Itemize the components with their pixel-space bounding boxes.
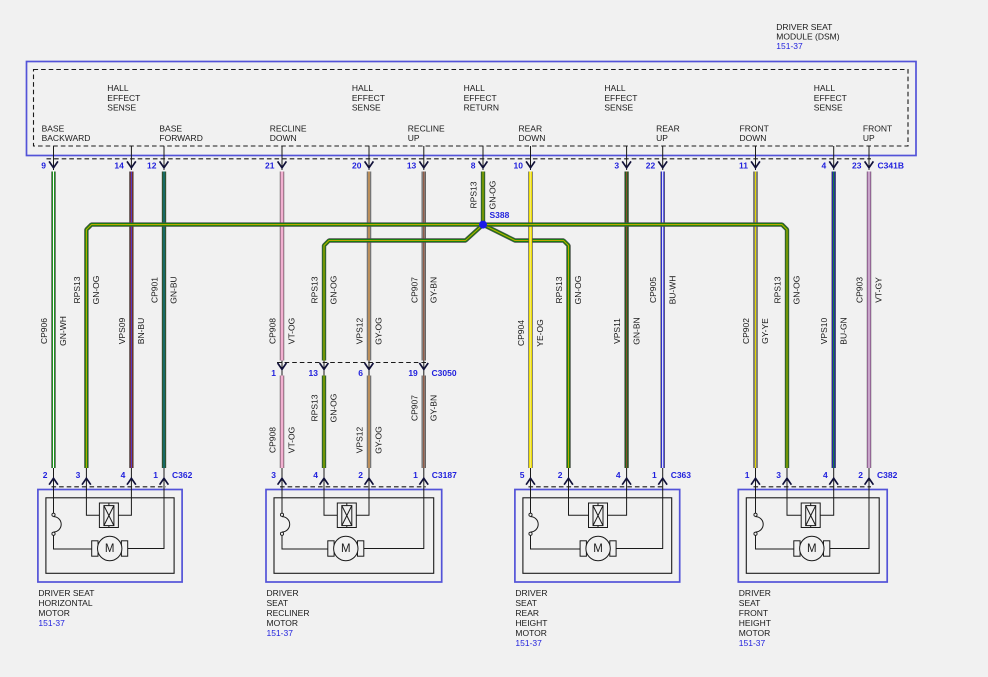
wire CP907 GY-BN C3050 to recliner motor bbox=[422, 376, 426, 469]
svg-text:151-37: 151-37 bbox=[515, 638, 542, 648]
svg-text:C3050: C3050 bbox=[432, 368, 457, 378]
svg-text:CP907: CP907 bbox=[409, 277, 419, 303]
svg-text:GY-OG: GY-OG bbox=[374, 426, 384, 454]
DSM pin 12 stub and arrow bbox=[163, 146, 165, 170]
driver seat rear height motor position sensor contact arc bbox=[529, 513, 532, 516]
driver seat horizontal motor hall sensor symbol bbox=[99, 503, 118, 528]
driver seat rear height motor pin 1 arrow bbox=[662, 468, 664, 490]
svg-text:EFFECT: EFFECT bbox=[107, 93, 140, 103]
svg-text:M: M bbox=[807, 543, 817, 555]
C3050 pin 13 arrow bbox=[323, 361, 325, 376]
driver seat horizontal motor inner box bbox=[46, 498, 174, 574]
driver seat rear height motor pin 5 arrow bbox=[530, 468, 532, 490]
svg-text:1: 1 bbox=[153, 470, 158, 480]
DSM pin 8 stub and arrow bbox=[482, 146, 484, 170]
svg-text:151-37: 151-37 bbox=[739, 638, 766, 648]
svg-text:2: 2 bbox=[558, 470, 563, 480]
svg-text:EFFECT: EFFECT bbox=[604, 93, 637, 103]
svg-text:MODULE (DSM): MODULE (DSM) bbox=[776, 31, 839, 41]
svg-text:M: M bbox=[593, 543, 603, 555]
driver seat recliner motor hall sensor symbol bbox=[337, 503, 356, 528]
svg-text:SENSE: SENSE bbox=[814, 102, 843, 112]
svg-text:SEAT: SEAT bbox=[515, 598, 537, 608]
wire VPS09 BN-BU pin 14 to horizontal motor bbox=[129, 172, 133, 469]
wire RPS13 GN-OG main bus bbox=[86, 225, 787, 468]
svg-text:UP: UP bbox=[408, 133, 420, 143]
wire CP906 GN-WH pin 9 to horizontal motor bbox=[51, 172, 55, 469]
svg-text:GN-OG: GN-OG bbox=[792, 276, 802, 305]
wire RPS13 GN-OG splice left branch to C3050 bbox=[324, 225, 483, 361]
svg-text:HALL: HALL bbox=[352, 83, 374, 93]
svg-text:GY-YE: GY-YE bbox=[760, 318, 770, 344]
svg-text:MOTOR: MOTOR bbox=[38, 608, 69, 618]
svg-text:BASE: BASE bbox=[159, 123, 182, 133]
svg-text:20: 20 bbox=[352, 160, 362, 170]
driver seat front height motor inner box bbox=[746, 498, 879, 574]
svg-text:GY-OG: GY-OG bbox=[374, 317, 384, 345]
svg-text:UP: UP bbox=[656, 133, 668, 143]
DSM module inner dashed box bbox=[34, 70, 909, 147]
svg-text:GN-OG: GN-OG bbox=[91, 276, 101, 305]
wire CP901 GN-BU pin 12 to horizontal motor bbox=[162, 172, 166, 469]
svg-text:HALL: HALL bbox=[814, 83, 836, 93]
driver seat recliner motor internal wiring bbox=[282, 490, 424, 550]
svg-text:RECLINE: RECLINE bbox=[270, 123, 307, 133]
driver seat front height motor internal wiring bbox=[756, 490, 870, 550]
svg-text:19: 19 bbox=[408, 368, 418, 378]
svg-text:EFFECT: EFFECT bbox=[814, 93, 847, 103]
svg-text:VPS12: VPS12 bbox=[355, 426, 365, 453]
svg-text:CP903: CP903 bbox=[855, 277, 865, 303]
driver seat recliner motor position sensor contact arc bbox=[280, 513, 283, 516]
svg-text:2: 2 bbox=[358, 470, 363, 480]
driver seat horizontal motor position sensor contact arc bbox=[52, 513, 55, 516]
svg-text:RPS13: RPS13 bbox=[72, 276, 82, 303]
wire VPS10 BU-GN pin 4 to front height motor bbox=[832, 172, 836, 469]
svg-text:CP907: CP907 bbox=[409, 395, 419, 421]
svg-text:EFFECT: EFFECT bbox=[464, 93, 497, 103]
svg-text:VT-GY: VT-GY bbox=[874, 277, 884, 303]
wire RPS13 GN-OG C3050 to recliner motor bbox=[322, 376, 326, 469]
DSM pin 23 stub and arrow bbox=[868, 146, 870, 170]
DSM pin 9 stub and arrow bbox=[53, 146, 55, 170]
svg-text:23: 23 bbox=[852, 160, 862, 170]
driver seat recliner motor pin 3 arrow bbox=[281, 468, 283, 490]
svg-text:4: 4 bbox=[823, 470, 828, 480]
svg-text:M: M bbox=[341, 543, 351, 555]
svg-text:GN-OG: GN-OG bbox=[329, 394, 339, 423]
driver seat rear height motor motor M symbol bbox=[580, 541, 586, 556]
driver seat recliner motor inner box bbox=[274, 498, 434, 574]
wire CP902 GY-YE pin 11 to front height motor bbox=[753, 172, 757, 469]
svg-text:21: 21 bbox=[265, 160, 275, 170]
svg-text:C382: C382 bbox=[877, 470, 898, 480]
svg-text:C363: C363 bbox=[671, 470, 692, 480]
DSM pin 20 stub and arrow bbox=[368, 146, 370, 170]
svg-text:14: 14 bbox=[114, 160, 124, 170]
driver seat front height motor pin 3 arrow bbox=[786, 468, 788, 490]
svg-text:GN-WH: GN-WH bbox=[58, 316, 68, 346]
svg-text:HALL: HALL bbox=[107, 83, 129, 93]
driver seat recliner motor outer box bbox=[266, 490, 442, 583]
wire VPS12 GY-OG pin 20 to C3050 bbox=[367, 172, 371, 361]
svg-text:VPS11: VPS11 bbox=[612, 318, 622, 344]
svg-text:DOWN: DOWN bbox=[519, 133, 546, 143]
svg-text:RETURN: RETURN bbox=[464, 102, 499, 112]
svg-text:RPS13: RPS13 bbox=[773, 276, 783, 303]
DSM pin 21 stub and arrow bbox=[281, 146, 283, 170]
driver seat rear height motor connector dashed line bbox=[529, 486, 665, 488]
svg-text:DRIVER SEAT: DRIVER SEAT bbox=[776, 22, 832, 32]
driver seat rear height motor inner box bbox=[523, 498, 672, 574]
svg-text:SENSE: SENSE bbox=[107, 102, 136, 112]
connector C341B dashed line bbox=[47, 158, 872, 160]
driver seat recliner motor connector dashed line bbox=[280, 486, 426, 488]
svg-text:GN-OG: GN-OG bbox=[329, 276, 339, 305]
svg-text:CP904: CP904 bbox=[516, 320, 526, 346]
svg-text:GN-BN: GN-BN bbox=[631, 317, 641, 344]
DSM pin 11 stub and arrow bbox=[755, 146, 757, 170]
svg-text:SENSE: SENSE bbox=[352, 102, 381, 112]
driver seat rear height motor pin 2 arrow bbox=[568, 468, 570, 490]
svg-text:RPS13: RPS13 bbox=[310, 394, 320, 421]
svg-text:DRIVER: DRIVER bbox=[515, 588, 547, 598]
driver seat recliner motor pin 2 arrow bbox=[368, 468, 370, 490]
svg-text:HALL: HALL bbox=[604, 83, 626, 93]
svg-text:CP906: CP906 bbox=[39, 318, 49, 344]
driver seat front height motor pin 4 arrow bbox=[833, 468, 835, 490]
driver seat front height motor motor M symbol bbox=[794, 541, 800, 556]
svg-text:S388: S388 bbox=[490, 210, 510, 220]
driver seat horizontal motor pin 2 arrow bbox=[53, 468, 55, 490]
driver seat horizontal motor pin 4 arrow bbox=[130, 468, 132, 490]
svg-text:BU-GN: BU-GN bbox=[838, 317, 848, 344]
svg-text:12: 12 bbox=[147, 160, 157, 170]
svg-text:MOTOR: MOTOR bbox=[267, 618, 298, 628]
svg-text:13: 13 bbox=[309, 368, 319, 378]
svg-text:VPS12: VPS12 bbox=[355, 317, 365, 344]
svg-text:HALL: HALL bbox=[464, 83, 486, 93]
wire CP903 VT-GY pin 23 to front height motor bbox=[867, 172, 871, 469]
svg-text:13: 13 bbox=[407, 160, 417, 170]
C3050 pin 1 arrow bbox=[281, 361, 283, 376]
driver seat front height motor position sensor contact arc bbox=[754, 513, 757, 516]
svg-text:9: 9 bbox=[41, 160, 46, 170]
svg-text:FORWARD: FORWARD bbox=[159, 133, 202, 143]
DSM pin 10 stub and arrow bbox=[530, 146, 532, 170]
svg-text:8: 8 bbox=[471, 160, 476, 170]
driver seat rear height motor hall sensor symbol bbox=[589, 503, 608, 528]
svg-text:2: 2 bbox=[858, 470, 863, 480]
svg-text:4: 4 bbox=[616, 470, 621, 480]
DSM pin 22 stub and arrow bbox=[662, 146, 664, 170]
svg-text:MOTOR: MOTOR bbox=[739, 628, 770, 638]
svg-text:4: 4 bbox=[121, 470, 126, 480]
driver seat horizontal motor pin 1 arrow bbox=[163, 468, 165, 490]
svg-text:2: 2 bbox=[43, 470, 48, 480]
svg-text:1: 1 bbox=[745, 470, 750, 480]
svg-text:C362: C362 bbox=[172, 470, 193, 480]
driver seat rear height motor outer box bbox=[515, 490, 680, 583]
svg-text:GN-OG: GN-OG bbox=[573, 276, 583, 305]
driver seat front height motor connector dashed line bbox=[754, 486, 872, 488]
svg-text:BASE: BASE bbox=[42, 123, 65, 133]
driver seat horizontal motor internal wiring bbox=[54, 490, 165, 550]
svg-text:11: 11 bbox=[739, 160, 748, 170]
DSM pin 3 stub and arrow bbox=[626, 146, 628, 170]
driver seat horizontal motor connector dashed line bbox=[52, 486, 167, 488]
svg-text:YE-OG: YE-OG bbox=[535, 319, 545, 346]
svg-text:151-37: 151-37 bbox=[776, 41, 803, 51]
svg-text:FRONT: FRONT bbox=[863, 123, 892, 133]
svg-text:C341B: C341B bbox=[878, 160, 904, 170]
svg-text:VPS10: VPS10 bbox=[819, 317, 829, 344]
svg-text:M: M bbox=[105, 543, 115, 555]
wire RPS13 GN-OG splice right branch to recliner-rear motor bbox=[483, 225, 569, 468]
DSM pin 4 stub and arrow bbox=[833, 146, 835, 170]
svg-text:DRIVER SEAT: DRIVER SEAT bbox=[38, 588, 94, 598]
svg-text:EFFECT: EFFECT bbox=[352, 93, 385, 103]
C3050 pin 6 arrow bbox=[368, 361, 370, 376]
svg-text:DRIVER: DRIVER bbox=[739, 588, 771, 598]
svg-text:DOWN: DOWN bbox=[740, 133, 767, 143]
svg-text:FRONT: FRONT bbox=[740, 123, 769, 133]
DSM pin 13 stub and arrow bbox=[423, 146, 425, 170]
svg-text:VPS09: VPS09 bbox=[117, 317, 127, 344]
svg-text:5: 5 bbox=[520, 470, 525, 480]
svg-text:GN-BU: GN-BU bbox=[169, 276, 179, 303]
svg-text:REAR: REAR bbox=[656, 123, 680, 133]
driver seat front height motor hall sensor symbol bbox=[801, 503, 820, 528]
svg-text:1: 1 bbox=[413, 470, 418, 480]
svg-text:MOTOR: MOTOR bbox=[515, 628, 546, 638]
svg-text:SEAT: SEAT bbox=[267, 598, 289, 608]
wire VPS11 GN-BN pin 3 to rear height motor bbox=[624, 172, 628, 469]
DSM pin 14 stub and arrow bbox=[130, 146, 132, 170]
svg-text:CP905: CP905 bbox=[648, 277, 658, 303]
svg-text:CP908: CP908 bbox=[268, 318, 278, 344]
driver seat front height motor pin 1 arrow bbox=[755, 468, 757, 490]
svg-text:SENSE: SENSE bbox=[604, 102, 633, 112]
svg-text:GY-BN: GY-BN bbox=[429, 277, 439, 303]
svg-text:RECLINE: RECLINE bbox=[408, 123, 445, 133]
svg-text:CP908: CP908 bbox=[268, 427, 278, 453]
svg-text:CP901: CP901 bbox=[150, 277, 160, 303]
driver seat horizontal motor motor M symbol bbox=[92, 541, 98, 556]
svg-text:REAR: REAR bbox=[519, 123, 543, 133]
svg-text:VT-OG: VT-OG bbox=[287, 318, 297, 344]
svg-text:3: 3 bbox=[614, 160, 619, 170]
driver seat horizontal motor outer box bbox=[38, 490, 182, 583]
svg-text:FRONT: FRONT bbox=[739, 608, 768, 618]
svg-text:1: 1 bbox=[652, 470, 657, 480]
svg-text:6: 6 bbox=[358, 368, 363, 378]
svg-text:DRIVER: DRIVER bbox=[267, 588, 299, 598]
svg-text:GY-BN: GY-BN bbox=[429, 395, 439, 421]
driver seat front height motor outer box bbox=[738, 490, 887, 583]
wire CP908 VT-OG C3050 to recliner motor bbox=[280, 376, 284, 469]
svg-text:3: 3 bbox=[76, 470, 81, 480]
wire CP907 GY-BN pin 13 to C3050 bbox=[422, 172, 426, 361]
driver seat recliner motor motor M symbol bbox=[328, 541, 334, 556]
wire CP904 YE-OG pin 10 to rear height motor bbox=[528, 172, 532, 469]
driver seat rear height motor pin 4 arrow bbox=[626, 468, 628, 490]
DSM module outer box bbox=[27, 62, 917, 156]
svg-text:BN-BU: BN-BU bbox=[136, 318, 146, 344]
svg-text:HORIZONTAL: HORIZONTAL bbox=[38, 598, 92, 608]
wire CP908 VT-OG pin 21 to C3050 bbox=[280, 172, 284, 361]
svg-text:C3187: C3187 bbox=[432, 470, 457, 480]
svg-text:UP: UP bbox=[863, 133, 875, 143]
driver seat recliner motor pin 4 arrow bbox=[323, 468, 325, 490]
driver seat front height motor pin 2 arrow bbox=[868, 468, 870, 490]
svg-text:HEIGHT: HEIGHT bbox=[515, 618, 547, 628]
C3050 pin 19 arrow bbox=[423, 361, 425, 376]
svg-text:RPS13: RPS13 bbox=[554, 276, 564, 303]
svg-text:3: 3 bbox=[271, 470, 276, 480]
splice S388 bbox=[479, 221, 487, 229]
svg-text:DOWN: DOWN bbox=[270, 133, 297, 143]
svg-text:BU-WH: BU-WH bbox=[667, 276, 677, 305]
svg-text:HEIGHT: HEIGHT bbox=[739, 618, 771, 628]
connector C3050 dashed line bbox=[277, 362, 429, 364]
svg-text:151-37: 151-37 bbox=[267, 628, 294, 638]
driver seat horizontal motor pin 3 arrow bbox=[85, 468, 87, 490]
svg-text:VT-OG: VT-OG bbox=[287, 427, 297, 453]
svg-text:REAR: REAR bbox=[515, 608, 539, 618]
svg-text:SEAT: SEAT bbox=[739, 598, 761, 608]
svg-text:GN-OG: GN-OG bbox=[488, 181, 498, 210]
svg-text:RECLINER: RECLINER bbox=[267, 608, 310, 618]
svg-text:4: 4 bbox=[313, 470, 318, 480]
svg-text:151-37: 151-37 bbox=[38, 618, 65, 628]
svg-text:RPS13: RPS13 bbox=[469, 181, 479, 208]
driver seat rear height motor internal wiring bbox=[531, 490, 663, 550]
svg-text:BACKWARD: BACKWARD bbox=[42, 133, 91, 143]
wire CP905 BU-WH pin 22 to rear height motor bbox=[661, 172, 665, 469]
svg-text:3: 3 bbox=[776, 470, 781, 480]
svg-text:4: 4 bbox=[821, 160, 826, 170]
driver seat recliner motor pin 1 arrow bbox=[423, 468, 425, 490]
svg-text:10: 10 bbox=[514, 160, 524, 170]
svg-text:1: 1 bbox=[271, 368, 276, 378]
wire RPS13 GN-OG pin 8 to splice S388 bbox=[481, 172, 485, 224]
svg-text:22: 22 bbox=[646, 160, 656, 170]
wire VPS12 GY-OG C3050 to recliner motor bbox=[367, 376, 371, 469]
svg-text:RPS13: RPS13 bbox=[310, 276, 320, 303]
svg-text:CP902: CP902 bbox=[741, 318, 751, 344]
